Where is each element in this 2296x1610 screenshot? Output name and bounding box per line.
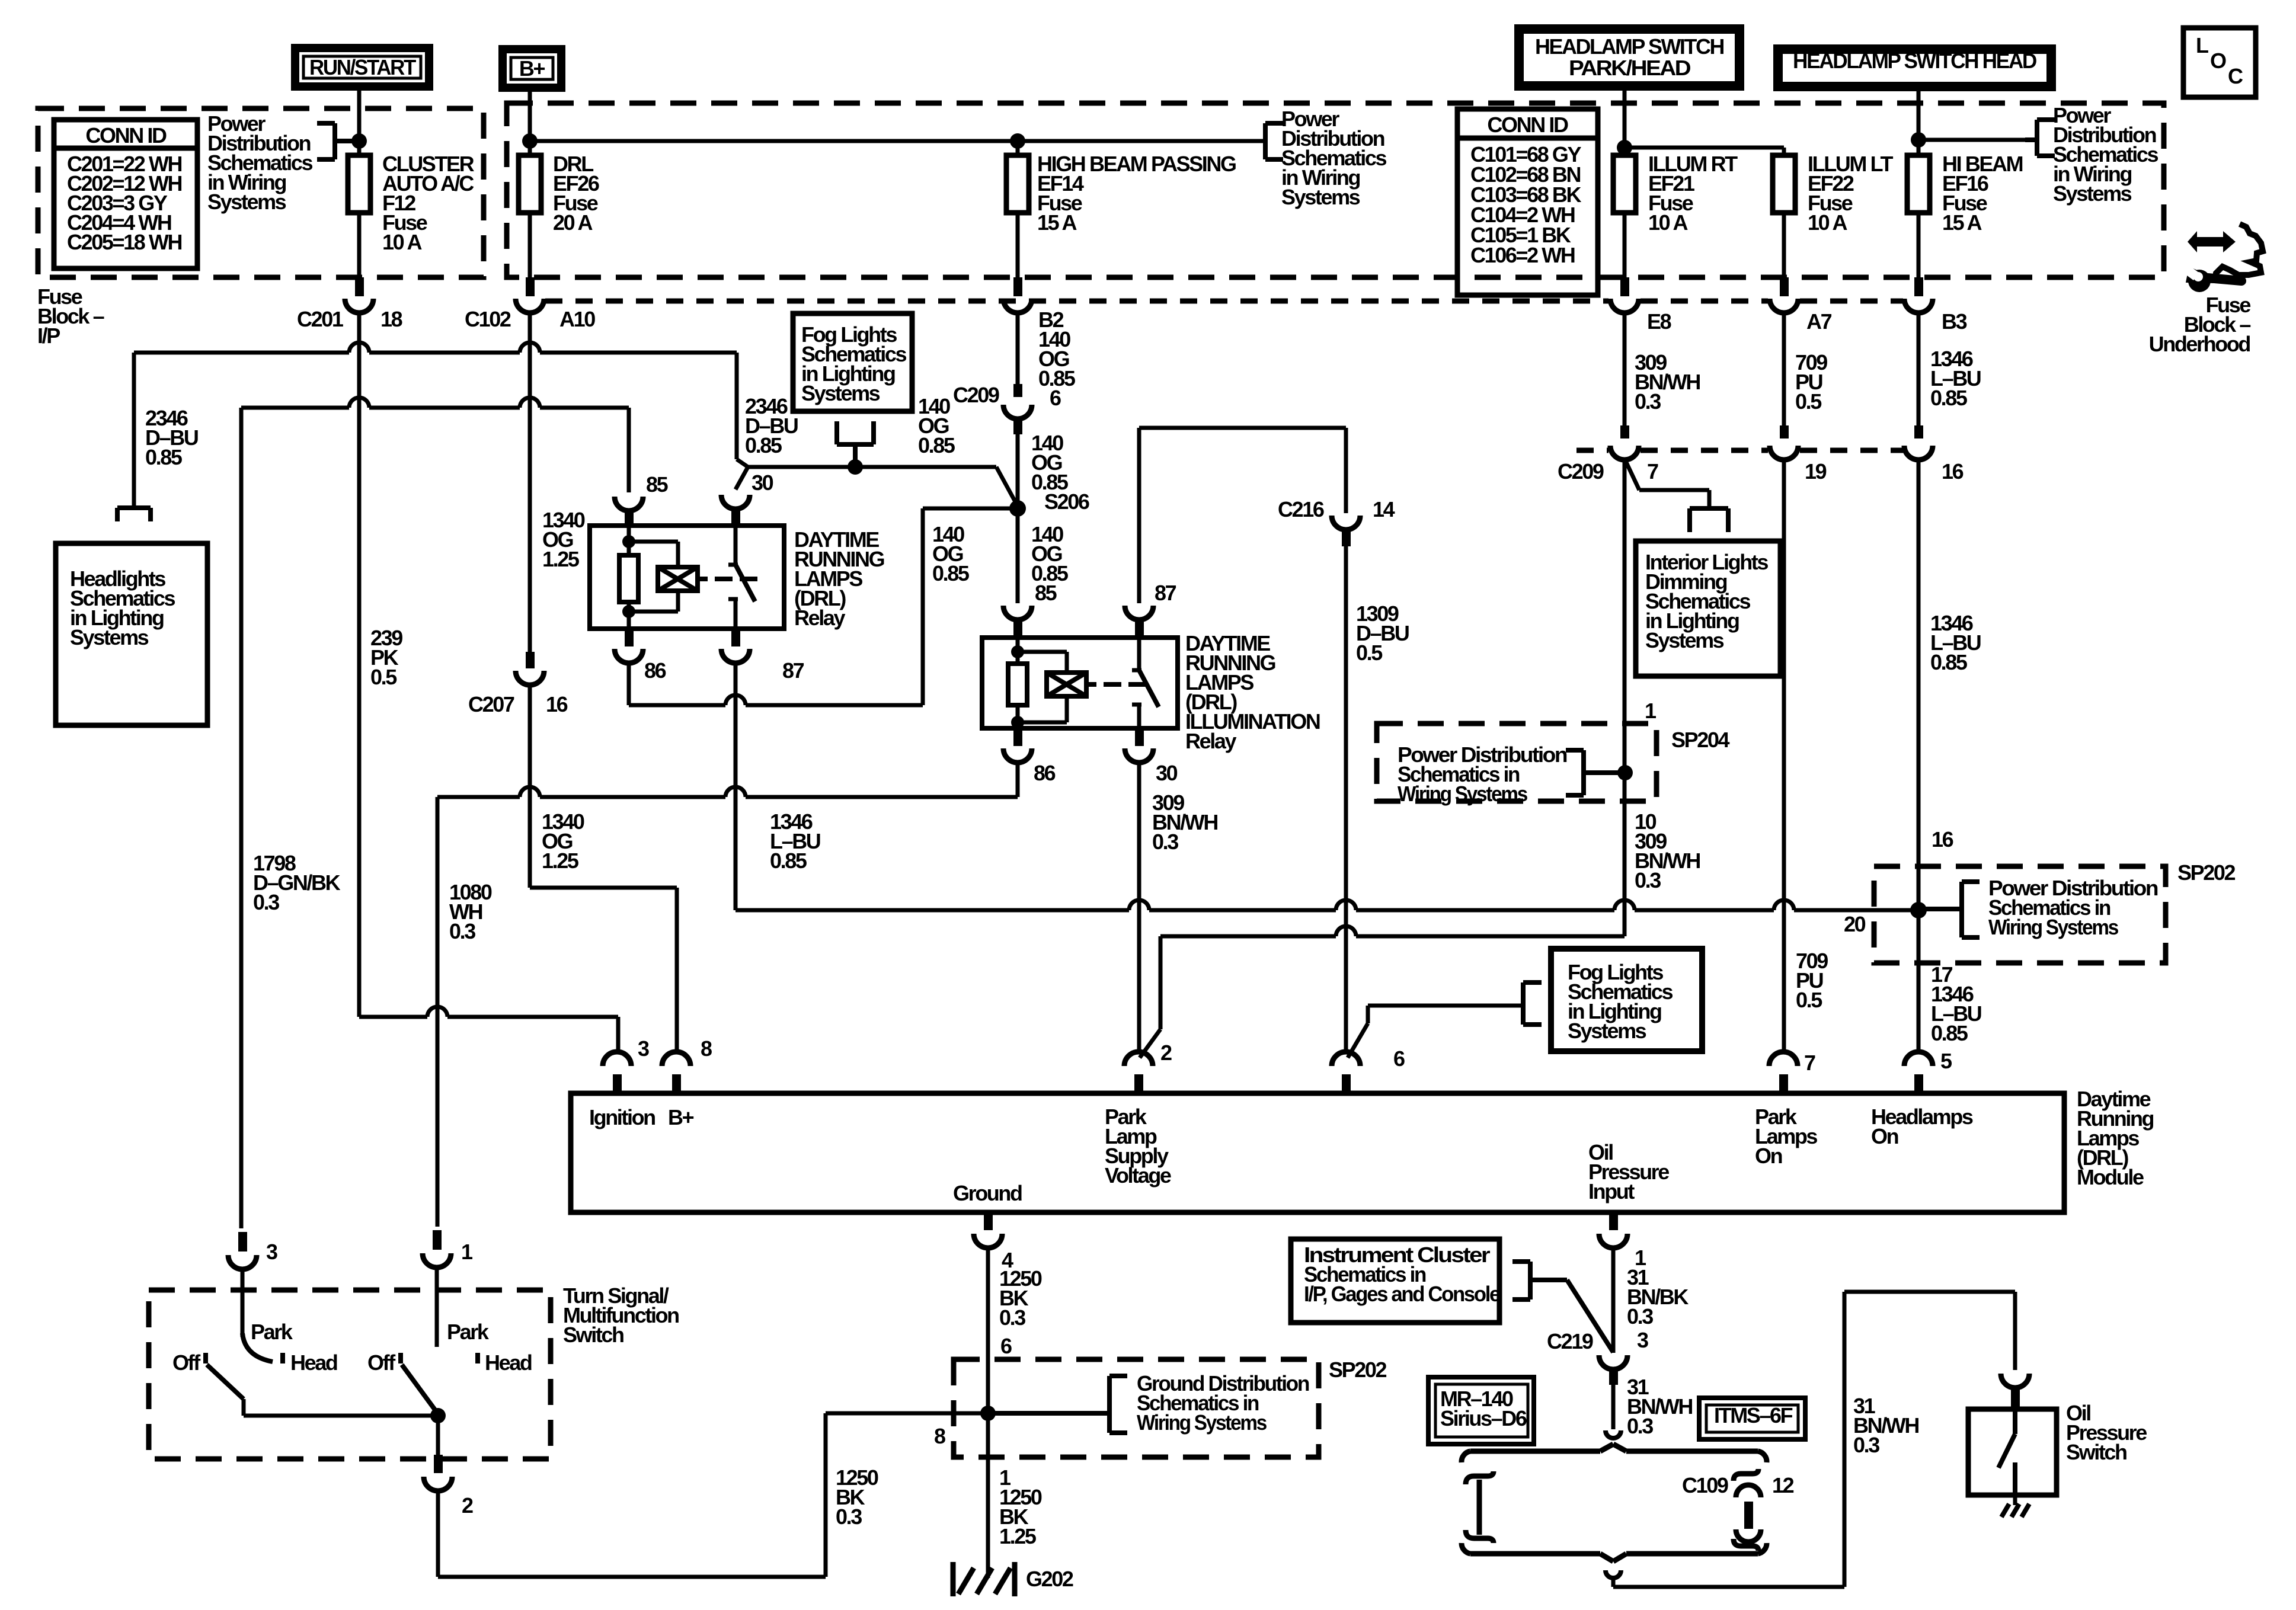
- svg-text:RUN/START: RUN/START: [309, 55, 416, 79]
- svg-text:A7: A7: [1806, 309, 1832, 334]
- svg-text:1.25: 1.25: [542, 849, 579, 873]
- svg-text:0.85: 0.85: [1930, 386, 1968, 410]
- svg-text:5: 5: [1940, 1049, 1952, 1073]
- svg-text:Relay: Relay: [1185, 729, 1236, 753]
- svg-text:I/P: I/P: [37, 324, 60, 348]
- svg-text:0.85: 0.85: [1931, 1021, 1968, 1045]
- svg-text:Module: Module: [2077, 1165, 2144, 1189]
- svg-text:0.5: 0.5: [370, 665, 397, 689]
- svg-text:20: 20: [1844, 912, 1866, 936]
- svg-text:C219: C219: [1547, 1329, 1593, 1353]
- svg-text:A10: A10: [559, 307, 595, 331]
- svg-text:PARK/HEAD: PARK/HEAD: [1569, 56, 1690, 80]
- svg-text:16: 16: [1942, 459, 1964, 484]
- svg-text:1.25: 1.25: [999, 1524, 1037, 1548]
- svg-text:87: 87: [1155, 581, 1176, 605]
- svg-text:0.3: 0.3: [449, 919, 475, 943]
- svg-text:Wiring Systems: Wiring Systems: [1137, 1410, 1267, 1435]
- svg-text:14: 14: [1373, 497, 1395, 521]
- svg-text:Head: Head: [290, 1350, 337, 1375]
- svg-text:On: On: [1755, 1144, 1782, 1168]
- svg-text:2: 2: [462, 1493, 473, 1518]
- svg-text:0.85: 0.85: [932, 561, 970, 585]
- svg-text:C216: C216: [1278, 497, 1324, 521]
- svg-text:0.85: 0.85: [145, 445, 183, 469]
- svg-text:0.3: 0.3: [1627, 1304, 1653, 1329]
- svg-text:30: 30: [752, 470, 773, 495]
- svg-text:0.3: 0.3: [253, 890, 279, 914]
- svg-text:HEADLAMP SWITCH HEAD: HEADLAMP SWITCH HEAD: [1793, 49, 2036, 73]
- svg-text:85: 85: [1035, 581, 1057, 605]
- svg-text:Ground: Ground: [953, 1181, 1022, 1205]
- svg-text:Switch: Switch: [563, 1323, 623, 1347]
- svg-text:15 A: 15 A: [1037, 210, 1077, 235]
- svg-text:Off: Off: [172, 1350, 201, 1375]
- svg-text:Wiring Systems: Wiring Systems: [1988, 915, 2118, 939]
- svg-text:Systems: Systems: [70, 625, 149, 649]
- svg-text:Ignition: Ignition: [589, 1105, 655, 1129]
- svg-text:C201: C201: [297, 307, 344, 331]
- svg-text:6: 6: [1050, 386, 1061, 410]
- svg-text:18: 18: [380, 307, 402, 331]
- svg-text:C207: C207: [468, 692, 514, 716]
- svg-text:3: 3: [638, 1036, 649, 1061]
- svg-text:ITMS–6F: ITMS–6F: [1714, 1403, 1793, 1427]
- svg-text:0.3: 0.3: [1627, 1414, 1653, 1438]
- svg-text:86: 86: [1034, 761, 1056, 785]
- svg-text:CONN ID: CONN ID: [1487, 113, 1568, 137]
- svg-text:0.3: 0.3: [1635, 389, 1661, 414]
- svg-text:6: 6: [1393, 1046, 1405, 1071]
- svg-text:E8: E8: [1647, 309, 1671, 334]
- svg-text:8: 8: [701, 1036, 712, 1061]
- svg-text:I/P, Gages and Console: I/P, Gages and Console: [1304, 1282, 1500, 1306]
- svg-text:C109: C109: [1682, 1473, 1728, 1497]
- svg-text:0.5: 0.5: [1795, 389, 1822, 414]
- svg-text:0.85: 0.85: [918, 433, 955, 457]
- svg-text:8: 8: [934, 1424, 945, 1448]
- svg-text:C: C: [2228, 64, 2243, 88]
- svg-text:On: On: [1871, 1124, 1898, 1148]
- svg-text:C205=18 WH: C205=18 WH: [67, 230, 182, 254]
- svg-text:O: O: [2210, 49, 2226, 73]
- svg-text:7: 7: [1647, 459, 1658, 484]
- svg-text:3: 3: [1637, 1328, 1648, 1352]
- svg-text:0.85: 0.85: [745, 433, 782, 457]
- svg-text:2: 2: [1160, 1041, 1172, 1065]
- svg-text:Underhood: Underhood: [2149, 332, 2250, 356]
- svg-text:C209: C209: [1558, 459, 1604, 484]
- svg-text:B+: B+: [519, 56, 545, 81]
- svg-text:Systems: Systems: [1281, 185, 1360, 209]
- svg-text:86: 86: [644, 658, 666, 683]
- svg-text:Systems: Systems: [1645, 628, 1724, 652]
- svg-text:Wiring Systems: Wiring Systems: [1398, 782, 1527, 806]
- svg-text:0.85: 0.85: [770, 849, 807, 873]
- svg-text:15 A: 15 A: [1942, 210, 1982, 235]
- svg-text:Systems: Systems: [2053, 181, 2132, 206]
- svg-text:Head: Head: [485, 1350, 532, 1375]
- svg-text:20 A: 20 A: [553, 210, 593, 235]
- svg-text:Sirius–D6: Sirius–D6: [1440, 1406, 1527, 1430]
- svg-text:0.3: 0.3: [1635, 868, 1661, 892]
- svg-text:19: 19: [1805, 459, 1827, 484]
- svg-text:C106=2 WH: C106=2 WH: [1470, 243, 1575, 267]
- svg-text:SP202: SP202: [2177, 860, 2235, 885]
- svg-text:85: 85: [646, 472, 669, 497]
- svg-text:Switch: Switch: [2066, 1440, 2126, 1464]
- svg-text:S206: S206: [1044, 489, 1089, 514]
- svg-text:CONN ID: CONN ID: [85, 123, 167, 148]
- svg-text:Systems: Systems: [801, 381, 880, 405]
- svg-text:0.3: 0.3: [836, 1505, 862, 1529]
- svg-text:7: 7: [1804, 1051, 1815, 1075]
- svg-text:HEADLAMP SWITCH: HEADLAMP SWITCH: [1535, 34, 1723, 59]
- svg-text:C209: C209: [953, 383, 999, 407]
- svg-text:0.3: 0.3: [999, 1305, 1025, 1330]
- svg-text:0.3: 0.3: [1853, 1433, 1879, 1457]
- svg-text:B3: B3: [1942, 309, 1967, 334]
- svg-text:0.3: 0.3: [1152, 830, 1178, 854]
- svg-text:Off: Off: [367, 1350, 396, 1375]
- svg-text:Systems: Systems: [1568, 1019, 1646, 1043]
- svg-text:10 A: 10 A: [1808, 210, 1848, 235]
- svg-text:1: 1: [461, 1240, 473, 1264]
- svg-text:0.85: 0.85: [1930, 650, 1968, 674]
- svg-text:Systems: Systems: [207, 190, 286, 214]
- svg-text:B+: B+: [668, 1105, 694, 1129]
- svg-text:Park: Park: [447, 1320, 490, 1344]
- svg-text:0.5: 0.5: [1796, 988, 1822, 1012]
- svg-text:87: 87: [782, 658, 804, 683]
- svg-text:0.5: 0.5: [1356, 641, 1383, 665]
- svg-text:10 A: 10 A: [1648, 210, 1689, 235]
- svg-text:G202: G202: [1026, 1567, 1073, 1591]
- svg-text:16: 16: [1932, 827, 1953, 852]
- svg-text:L: L: [2196, 33, 2208, 57]
- svg-text:6: 6: [1000, 1334, 1012, 1358]
- svg-text:1: 1: [1645, 699, 1657, 723]
- svg-text:1.25: 1.25: [542, 547, 580, 571]
- svg-text:SP204: SP204: [1671, 728, 1729, 752]
- svg-text:30: 30: [1156, 761, 1178, 785]
- svg-text:10 A: 10 A: [382, 230, 423, 254]
- svg-text:16: 16: [546, 692, 568, 716]
- svg-text:12: 12: [1772, 1473, 1794, 1497]
- svg-text:Relay: Relay: [794, 606, 845, 630]
- svg-text:3: 3: [266, 1240, 277, 1264]
- svg-text:Input: Input: [1588, 1179, 1635, 1204]
- svg-text:C102: C102: [465, 307, 511, 331]
- svg-text:Park: Park: [251, 1320, 293, 1344]
- svg-text:SP202: SP202: [1329, 1358, 1386, 1382]
- svg-text:Voltage: Voltage: [1105, 1163, 1171, 1188]
